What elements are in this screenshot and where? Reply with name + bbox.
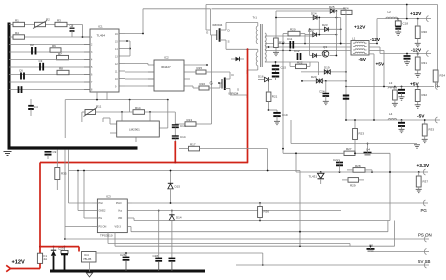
IC3 TPS3510: [97, 195, 127, 238]
capacitor C17: [272, 73, 279, 80]
svg-text:+5V: +5V: [376, 62, 385, 68]
shunt TL431: [309, 172, 325, 184]
wire row B: [115, 221, 395, 248]
LM2901 pins: [110, 117, 164, 142]
svg-text:TL494: TL494: [97, 34, 106, 38]
wire row34: [305, 34, 337, 36]
svg-text:R8: R8: [59, 67, 63, 71]
wire vert 340: [340, 18, 342, 45]
svg-text:D25: D25: [329, 5, 335, 9]
diode D21: [51, 246, 56, 271]
red +12V rail vertical: [247, 49, 249, 162]
resistor R23: [353, 119, 365, 153]
svg-text:C26: C26: [120, 253, 126, 257]
svg-text:C11: C11: [287, 37, 293, 41]
capacitor C16: [19, 69, 24, 80]
svg-text:PGI: PGI: [99, 202, 104, 205]
wire below IC1: [97, 92, 107, 100]
connector +12V: [426, 16, 431, 22]
svg-text:PG: PG: [99, 217, 103, 220]
wire L1 out -12: [369, 47, 380, 54]
wire loop row: [69, 170, 301, 172]
diode D19 double: [324, 66, 330, 75]
wire: [125, 78, 154, 80]
capacitor C23: [58, 246, 68, 271]
red +12V down branch: [39, 163, 41, 254]
resistor R38: [416, 172, 428, 189]
wire +5V row: [345, 86, 438, 88]
wire PG left: [84, 171, 92, 219]
resistor R17: [179, 142, 269, 171]
svg-text:R16: R16: [200, 82, 206, 86]
svg-text:+12V: +12V: [12, 260, 25, 266]
svg-text:Q4: Q4: [366, 148, 370, 152]
wire row80: [301, 80, 347, 82]
connector -5V: [434, 117, 440, 123]
wire: [9, 59, 90, 61]
IC1 TL494: [90, 25, 119, 92]
svg-text:R23: R23: [359, 132, 365, 136]
resistor R8: [57, 67, 69, 75]
wire vert 346: [345, 11, 347, 121]
wire Vcc row: [132, 210, 341, 212]
wire row A: [108, 233, 350, 247]
svg-text:R28: R28: [355, 164, 361, 168]
svg-text:C15: C15: [281, 66, 287, 70]
resistor R1: [13, 19, 25, 27]
svg-text:5V SB: 5V SB: [418, 259, 431, 264]
diode D20 double: [311, 75, 322, 83]
wire: [65, 99, 169, 138]
capacitor C26: [120, 252, 129, 271]
wire row17: [275, 17, 341, 19]
resistor R27: [344, 147, 355, 155]
svg-text:C3: C3: [39, 59, 43, 63]
svg-text:GND2: GND2: [99, 210, 107, 213]
resistor R36: [258, 203, 270, 221]
resistor R28: [347, 164, 372, 172]
wire: [9, 89, 90, 91]
resistor R33: [422, 119, 434, 139]
capacitor C5: [70, 24, 75, 38]
wire vert 336: [335, 11, 337, 56]
svg-text:C24: C24: [319, 90, 325, 94]
wire half bridge node: [226, 46, 258, 50]
diode D23: [322, 23, 328, 31]
svg-text:+12V: +12V: [410, 11, 422, 17]
wire top outer: [206, 5, 438, 87]
wire L1 out +5: [369, 50, 384, 86]
capacitor C2: [30, 43, 36, 55]
wire L1 out -5: [369, 54, 374, 120]
svg-text:D20: D20: [311, 75, 317, 79]
capacitor C12: [294, 49, 301, 60]
capacitor C20: [398, 87, 405, 97]
svg-text:IR4427: IR4427: [161, 65, 171, 69]
resistor R29: [342, 178, 364, 188]
transistor Q4: [364, 143, 372, 155]
ground R31: [415, 74, 421, 77]
IC2 IR4427: [154, 56, 184, 91]
svg-text:LM2901: LM2901: [129, 128, 140, 132]
wire row71: [301, 71, 347, 73]
red +5V branch: [174, 141, 176, 164]
svg-text:D24: D24: [311, 11, 317, 15]
svg-text:R4: R4: [15, 31, 19, 35]
svg-text:PG: PG: [421, 208, 428, 213]
svg-text:D22: D22: [308, 29, 314, 33]
wire snubber vertical: [282, 43, 284, 154]
capacitor C21: [398, 120, 405, 129]
resistor R4: [13, 31, 25, 39]
svg-text:R3: R3: [57, 19, 61, 23]
svg-text:IRF634: IRF634: [213, 23, 223, 27]
connector +5V: [435, 84, 440, 90]
resistor R30: [415, 19, 427, 43]
svg-text:R2: R2: [46, 18, 50, 22]
wire VID row: [132, 218, 390, 221]
svg-text:2A: 2A: [44, 257, 48, 261]
svg-text:R36: R36: [264, 210, 270, 214]
ground C30: [404, 62, 410, 65]
svg-text:D19: D19: [324, 66, 330, 70]
wire: [9, 24, 83, 26]
wire: [9, 66, 90, 68]
zener D16: [258, 75, 272, 82]
wire secondary row2: [265, 43, 351, 45]
svg-text:L1: L1: [352, 37, 356, 41]
op-amp IC5 LM2901: [117, 121, 160, 137]
wire row 251: [371, 250, 427, 252]
svg-text:R22: R22: [297, 60, 303, 64]
svg-text:R19: R19: [279, 41, 285, 45]
wire PS ON row: [65, 238, 426, 240]
svg-text:TPS3510: TPS3510: [100, 234, 113, 238]
wire: [82, 25, 84, 39]
resistor R19: [274, 33, 285, 52]
wire secondary row5: [265, 62, 319, 75]
svg-text:PS ON: PS ON: [99, 226, 107, 229]
capacitor C7: [19, 86, 22, 93]
wire row11: [276, 10, 337, 33]
resistor R7: [57, 52, 69, 60]
ground R30: [415, 43, 421, 46]
wire 5VSB rail: [236, 264, 426, 266]
wire: [164, 100, 168, 128]
svg-text:C5: C5: [70, 24, 74, 28]
red junction: [39, 246, 41, 248]
svg-text:C4: C4: [34, 105, 38, 109]
diode D25: [329, 5, 335, 13]
IC1 pins right: [119, 34, 125, 87]
ground: [4, 152, 12, 156]
svg-text:-5V: -5V: [359, 57, 367, 63]
+12V input arrow: [6, 265, 10, 271]
resistor R16: [190, 82, 222, 90]
wire: [9, 51, 90, 53]
resistor R25: [393, 86, 398, 103]
svg-text:R17: R17: [190, 142, 196, 146]
connector PG: [423, 200, 428, 206]
svg-text:R20: R20: [290, 28, 296, 32]
resistor R14: [133, 106, 145, 114]
choke L1: [351, 37, 369, 56]
fuse R40: [37, 253, 47, 263]
svg-text:D23: D23: [322, 23, 328, 27]
svg-text:R11: R11: [96, 105, 102, 109]
diode D24: [311, 11, 317, 19]
wire: [9, 81, 90, 83]
wire: [82, 111, 175, 122]
svg-text:R6: R6: [52, 44, 56, 48]
svg-text:C13: C13: [180, 124, 186, 128]
svg-text:R24: R24: [343, 7, 349, 11]
svg-text:IC1: IC1: [98, 25, 103, 29]
wire secondary row4: [265, 50, 351, 52]
trimmer R2: [33, 18, 50, 29]
svg-text:C9: C9: [53, 150, 57, 154]
zener D14: [169, 210, 182, 271]
svg-text:S: S: [228, 40, 230, 44]
svg-text:R31: R31: [422, 61, 428, 65]
svg-text:R14: R14: [135, 106, 141, 110]
svg-text:R37: R37: [423, 180, 429, 184]
svg-text:78L05: 78L05: [83, 257, 92, 261]
svg-text:R1: R1: [15, 19, 19, 23]
capacitor C30: [404, 53, 411, 62]
resistor R22: [290, 60, 310, 68]
node 3.3V circuit: [389, 153, 391, 220]
capacitor C13: [172, 112, 186, 128]
capacitor C22: [333, 158, 343, 172]
resistor R32: [415, 87, 427, 105]
IC3 pins: [92, 203, 132, 227]
wire vert 319: [318, 17, 320, 36]
resistor R6: [50, 44, 61, 52]
svg-text:VID 3: VID 3: [115, 226, 122, 229]
svg-text:C22: C22: [333, 158, 339, 162]
ground Tr1 aux: [274, 121, 280, 124]
wire secondary row1: [265, 34, 313, 37]
IC4 78L05: [82, 252, 97, 263]
transistor Q5: [367, 244, 375, 252]
wire PS ON left: [64, 150, 92, 240]
ground bottom bus: [50, 270, 205, 273]
wire row29: [309, 28, 342, 30]
wire PGI left: [69, 150, 93, 203]
capacitor C27: [153, 210, 163, 271]
svg-text:R35: R35: [61, 172, 67, 176]
wire: [9, 44, 90, 46]
ground C20: [399, 97, 405, 100]
transformer Tr1: [253, 16, 267, 68]
wire vert 309: [309, 29, 311, 55]
input bus (rectified mains): [8, 23, 138, 150]
wire +12V row: [377, 18, 427, 44]
trimmer R11: [84, 105, 102, 117]
resistor R3: [55, 19, 67, 27]
wire secondary row3: [265, 46, 351, 48]
connector PS ON: [424, 236, 429, 242]
connector -12V: [380, 51, 431, 57]
svg-text:R30: R30: [422, 30, 428, 34]
svg-text:R15: R15: [197, 66, 203, 70]
IC2 pins: [148, 65, 190, 86]
ground R19: [273, 52, 279, 55]
wire top inner: [212, 4, 408, 19]
inductor L4: [388, 112, 397, 120]
svg-text:+12V: +12V: [354, 25, 366, 31]
capacitor C19: [268, 102, 288, 122]
wire 3.3V row: [296, 171, 425, 173]
svg-text:R32: R32: [422, 93, 428, 97]
wire: [125, 40, 131, 56]
ground row 143: [414, 145, 420, 148]
wire: [230, 95, 247, 98]
connector 3.3V: [423, 169, 428, 175]
resistor R15: [190, 66, 230, 74]
wire: [125, 64, 154, 66]
svg-text:C14: C14: [180, 135, 186, 139]
svg-text:C23: C23: [58, 247, 64, 251]
wire drain top: [226, 23, 258, 27]
svg-text:R34: R34: [440, 74, 446, 78]
resistor R24: [341, 7, 352, 15]
svg-text:G: G: [210, 81, 213, 86]
capacitor C14: [172, 128, 186, 142]
ground C21: [399, 129, 405, 132]
wire L1 out +12: [369, 43, 378, 45]
svg-text:C18: C18: [403, 22, 409, 26]
ground R32: [415, 105, 421, 108]
wire feedback gate: [175, 35, 211, 124]
wire -5V row: [346, 119, 434, 121]
svg-text:R7: R7: [58, 52, 62, 56]
svg-text:VID: VID: [118, 217, 122, 220]
capacitor C9: [45, 150, 57, 159]
svg-text:-12V: -12V: [370, 37, 381, 43]
capacitor C11: [287, 37, 293, 49]
svg-text:D16: D16: [258, 75, 264, 79]
svg-text:L4: L4: [389, 112, 393, 116]
capacitor C25: [343, 96, 349, 99]
capacitor C15: [272, 61, 287, 72]
ground IC4: [86, 262, 92, 277]
ground R33: [422, 139, 428, 142]
wire PG row: [132, 202, 425, 204]
wire feedback top: [125, 9, 211, 35]
capacitor C24: [319, 81, 329, 101]
ground R38: [416, 189, 422, 192]
transistor Q1 IRF634: [206, 9, 231, 46]
svg-text:-12V: -12V: [411, 48, 422, 54]
connector row 251: [424, 249, 429, 255]
svg-text:C12: C12: [294, 49, 300, 53]
red branch to IC4: [40, 247, 79, 252]
wire: [9, 36, 90, 38]
ground C24: [323, 101, 329, 104]
svg-text:IC3: IC3: [106, 195, 111, 199]
resistor R35: [55, 150, 67, 190]
diode D22: [308, 29, 317, 37]
red +12V rail horizontal: [40, 162, 248, 164]
svg-text:Tr1: Tr1: [253, 16, 258, 20]
svg-text:R13: R13: [187, 118, 193, 122]
svg-text:R33: R33: [429, 128, 435, 132]
svg-text:R29: R29: [350, 184, 356, 188]
wire row 143: [291, 120, 417, 144]
svg-text:R27: R27: [346, 147, 352, 151]
wire: [125, 85, 154, 87]
resistor R34: [433, 70, 445, 87]
wire primary lower: [247, 49, 258, 74]
IC1 pins left: [84, 37, 90, 90]
wire row 231: [127, 221, 388, 233]
diode D21: [313, 53, 317, 57]
connector 5V SB: [424, 262, 429, 268]
resistor R21: [266, 82, 277, 102]
svg-text:-5V: -5V: [417, 114, 425, 120]
resistor R31: [415, 54, 427, 74]
svg-text:S: S: [237, 88, 239, 92]
svg-text:C28: C28: [153, 254, 159, 258]
wire GND2 left: [78, 171, 92, 211]
wire vertical x300: [299, 171, 301, 247]
ground C18: [395, 32, 401, 35]
capacitor C3: [39, 59, 44, 71]
wire 5VSB from IC4: [96, 253, 264, 266]
zener D15: [168, 171, 181, 204]
svg-text:L2: L2: [388, 10, 392, 14]
svg-text:D15: D15: [175, 185, 181, 189]
red input wire: [10, 263, 40, 268]
wire row55: [310, 55, 338, 57]
IC1 pin numbers: [91, 33, 118, 92]
inductor L2: [386, 10, 398, 19]
svg-text:IC2: IC2: [164, 56, 169, 60]
svg-text:C6: C6: [19, 69, 23, 73]
svg-text:+3.3V: +3.3V: [417, 163, 430, 169]
svg-text:TL431: TL431: [309, 175, 318, 179]
transistor Q3: [322, 45, 329, 57]
transistor Q2 IRF634: [210, 72, 240, 96]
svg-text:D14: D14: [176, 216, 182, 220]
resistor R20: [283, 28, 305, 44]
node D13 zener: [231, 57, 244, 61]
svg-text:L3: L3: [389, 81, 393, 85]
resistor R13: [185, 118, 196, 126]
svg-text:R21: R21: [272, 95, 278, 99]
wire row 153: [283, 152, 390, 172]
capacitor C18: [395, 19, 408, 32]
svg-text:C2: C2: [30, 43, 34, 47]
wire: [190, 64, 208, 66]
wire: [9, 74, 90, 76]
inductor L3: [388, 81, 397, 89]
ground R25: [392, 103, 398, 106]
svg-text:PGO: PGO: [116, 202, 122, 205]
wire: [125, 71, 154, 73]
capacitor C4: [28, 99, 38, 116]
svg-text:Q5: Q5: [369, 244, 373, 248]
svg-text:Q3: Q3: [323, 45, 327, 49]
